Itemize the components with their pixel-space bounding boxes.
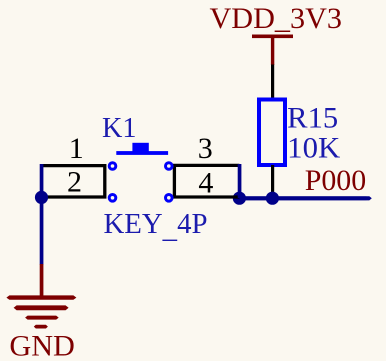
svg-text:K1: K1: [102, 112, 137, 144]
svg-text:GND: GND: [9, 330, 75, 361]
wire R15 to node P000: [271, 165, 274, 199]
junction dot node P000 / R15: [266, 192, 279, 205]
wire short key pins 3-4 (right loop): [174, 165, 239, 197]
wire key pin3 corner down to node: [238, 164, 242, 198]
wire VDD to R15: [271, 65, 274, 99]
pin 4 circle: [166, 195, 173, 202]
ground symbol: [6, 295, 76, 328]
net wire P000: [239, 196, 372, 200]
pin 2 circle: [109, 195, 116, 202]
svg-text:1: 1: [69, 132, 84, 165]
wire key pin2 to GND (navy vertical): [40, 164, 44, 265]
svg-text:R15: R15: [287, 101, 338, 134]
pin 1 circle: [109, 163, 116, 170]
junction dot key pin4 corner: [233, 192, 246, 205]
svg-text:3: 3: [198, 132, 213, 165]
wire short key pins 1-2 (left loop): [42, 166, 105, 197]
svg-text:VDD_3V3: VDD_3V3: [210, 2, 343, 35]
junction dot key pin2 / GND: [35, 191, 48, 204]
switch K1 actuator symbol: [116, 143, 168, 155]
wire bottom of right loop: [173, 195, 240, 198]
wire GND stem maroon: [40, 264, 44, 298]
power symbol VDD bar: [252, 35, 293, 66]
svg-text:10K: 10K: [287, 132, 340, 165]
resistor R15: [259, 100, 285, 166]
svg-text:2: 2: [67, 166, 82, 199]
pin 3 circle: [166, 163, 173, 170]
svg-text:4: 4: [198, 167, 213, 200]
svg-text:KEY_4P: KEY_4P: [104, 208, 208, 245]
svg-text:P000: P000: [305, 164, 367, 197]
